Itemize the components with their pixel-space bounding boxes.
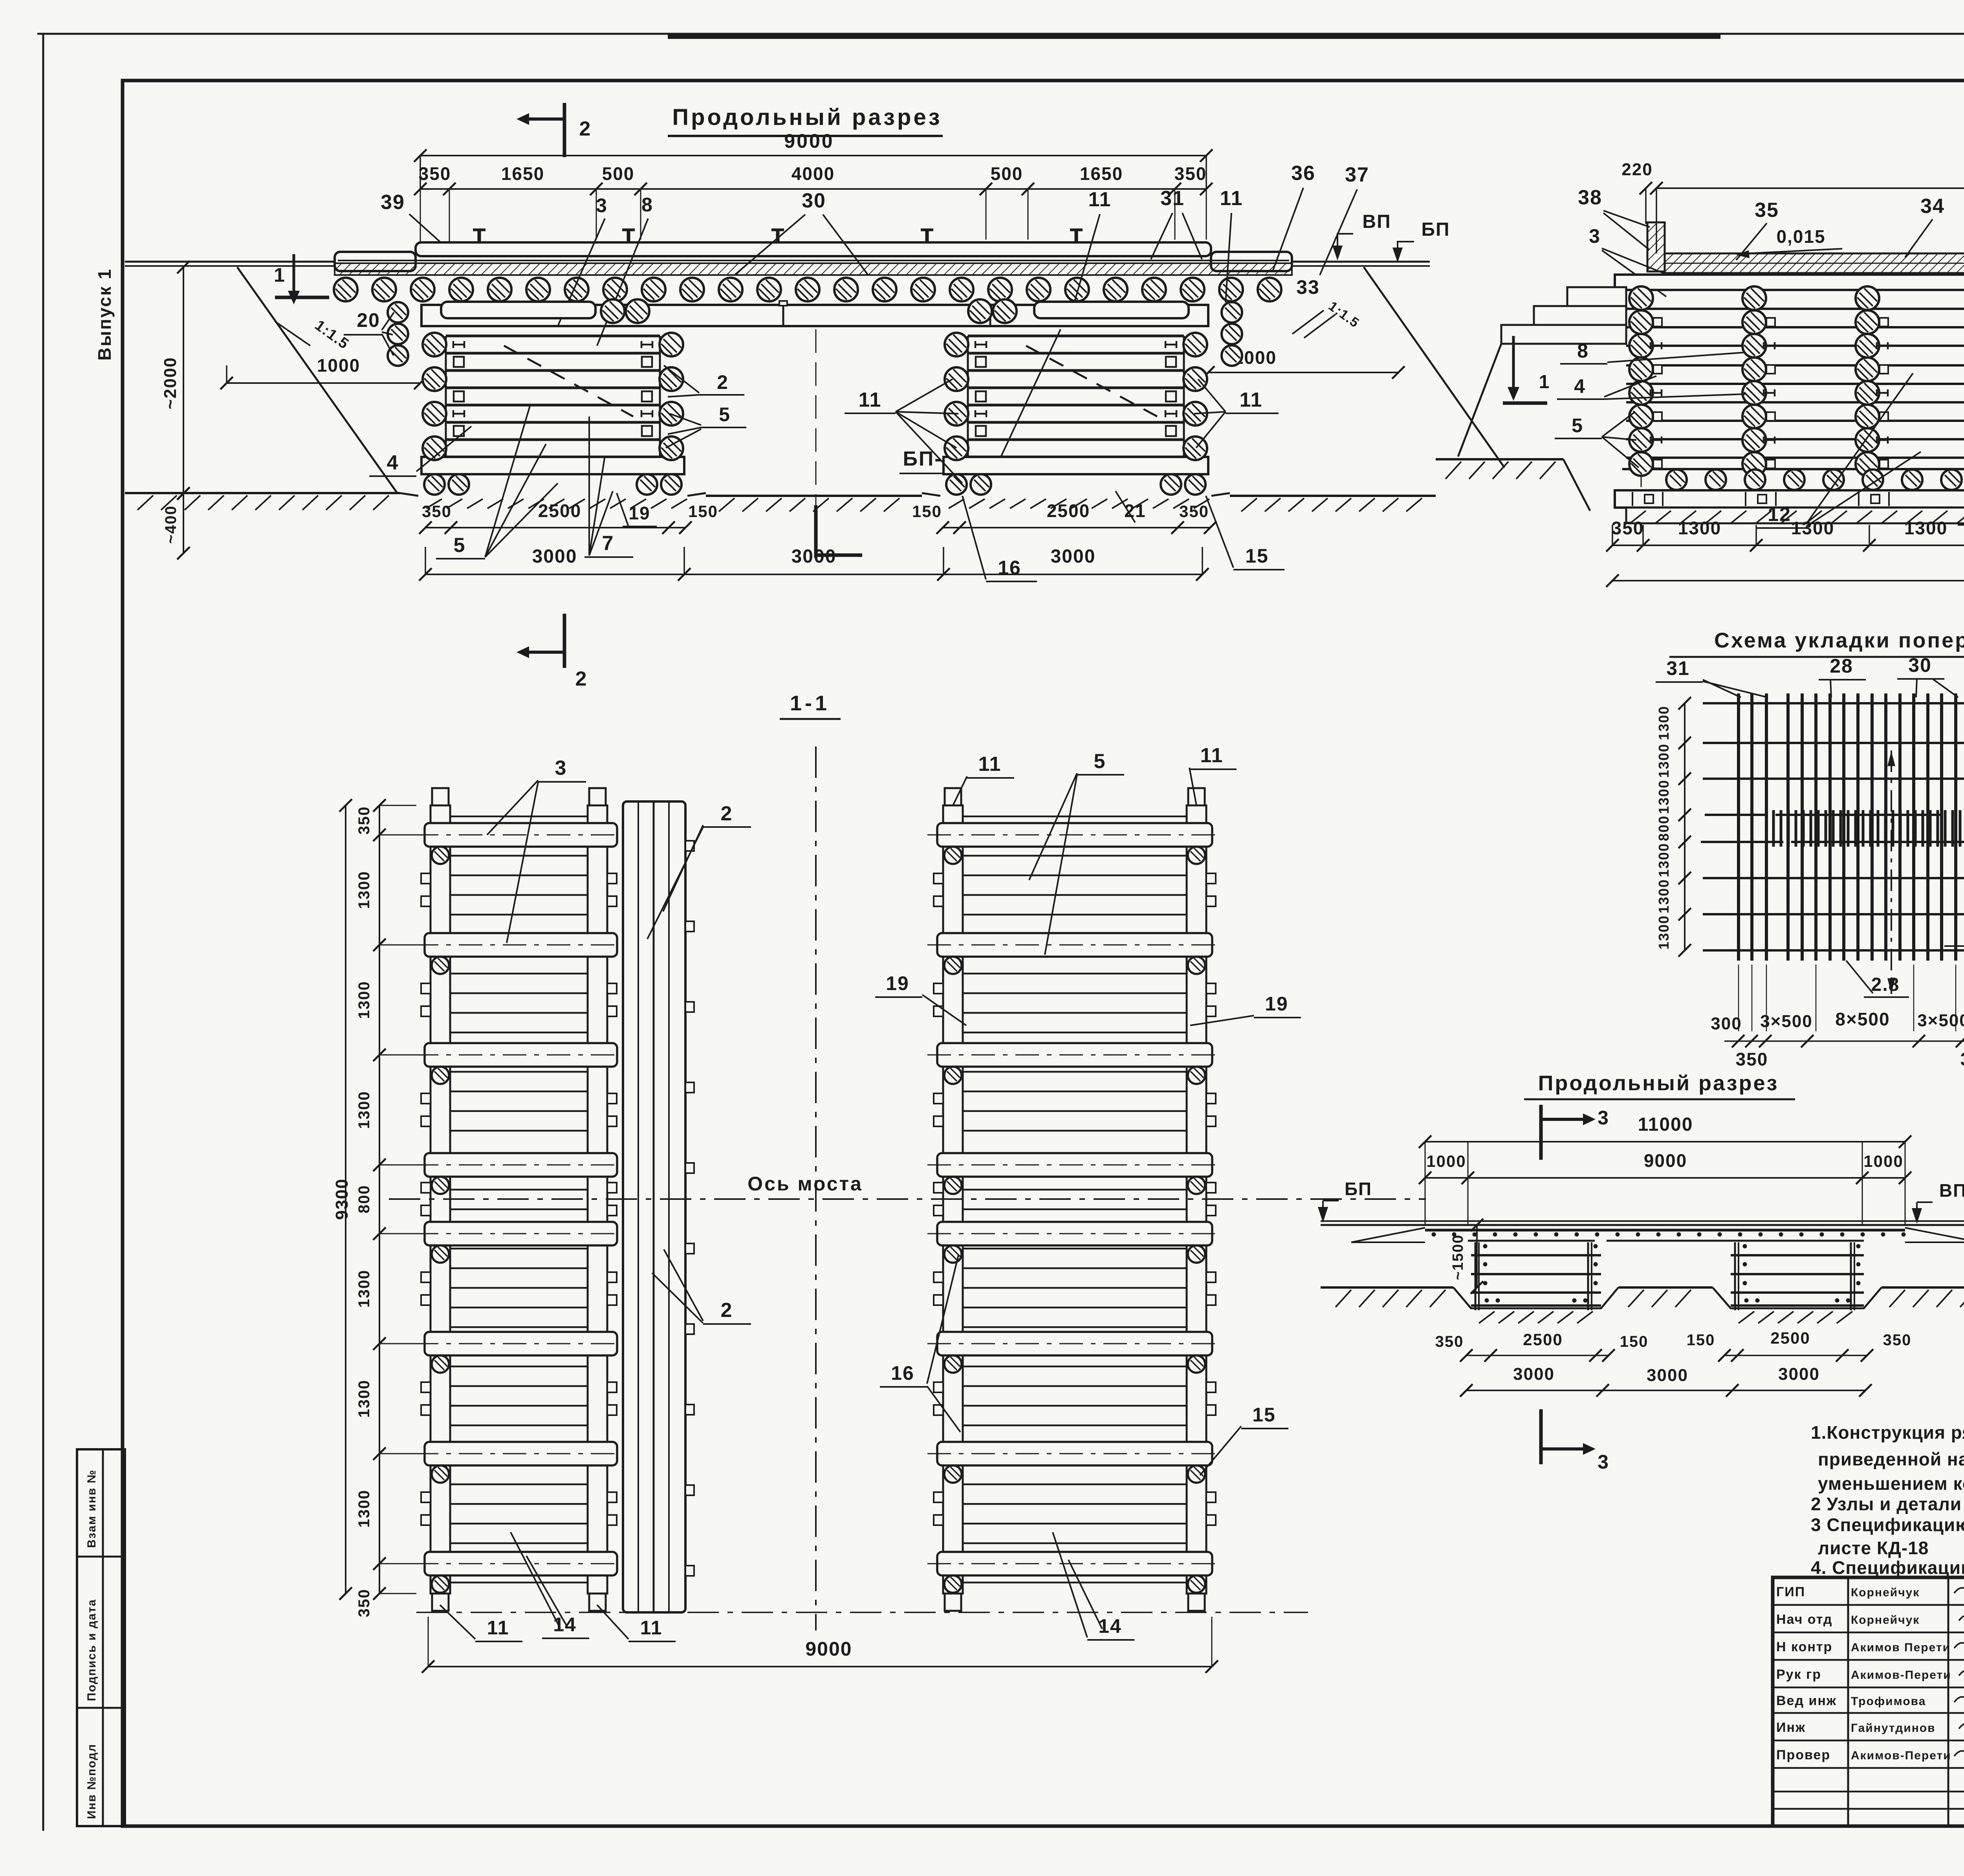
dim 11000 (1425, 1141, 1905, 1142)
svg-text:1000: 1000 (1863, 1152, 1903, 1170)
axis of bridge horizontal (389, 1198, 1426, 1200)
svg-text:2: 2 (721, 802, 733, 825)
svg-text:11: 11 (640, 1617, 663, 1639)
dim 8000 with 220 ends (1656, 187, 1964, 189)
dim ~400 vertical (183, 493, 184, 553)
svg-text:36: 36 (1291, 162, 1315, 185)
svg-text:2500: 2500 (1523, 1330, 1563, 1349)
svg-text:Н контр: Н контр (1776, 1639, 1832, 1654)
svg-text:2: 2 (721, 1299, 733, 1322)
svg-text:1000: 1000 (317, 355, 360, 376)
2-2 bottom transverse logs row (1666, 469, 1687, 490)
svg-text:350: 350 (1174, 163, 1207, 184)
svg-text:350: 350 (1883, 1331, 1912, 1349)
svg-text:350: 350 (355, 1589, 373, 1617)
svg-text:150: 150 (688, 502, 718, 521)
svg-text:~1500: ~1500 (1450, 1234, 1466, 1280)
svg-text:2 Узлы и детали ст. на ли: 2 Узлы и детали ст. на листе КД-15. (1811, 1494, 1964, 1514)
svg-text:12: 12 (1768, 503, 1791, 525)
embankment slope left 1:1.5 (237, 267, 398, 493)
svg-text:19: 19 (1265, 993, 1288, 1015)
svg-text:1: 1 (1539, 372, 1550, 392)
svg-text:500: 500 (602, 163, 635, 184)
svg-text:350: 350 (355, 806, 373, 835)
svg-text:2500: 2500 (1047, 501, 1090, 521)
svg-text:220: 220 (1621, 160, 1653, 179)
svg-text:31: 31 (1666, 657, 1690, 679)
left margin stamp table (77, 1449, 125, 1826)
small view dims 350 2500 150 / 150 2500 350 (1466, 1355, 1609, 1356)
svg-text:3000: 3000 (532, 546, 577, 567)
svg-text:3 Спецификацию элементов про: 3 Спецификацию элементов пролетных строе… (1811, 1515, 1964, 1535)
svg-text:350: 350 (1179, 502, 1209, 521)
svg-text:19: 19 (628, 503, 650, 523)
svg-text:16: 16 (891, 1362, 914, 1384)
schema axis БП-4 (1891, 750, 1892, 994)
svg-text:2: 2 (579, 117, 592, 140)
svg-text:2500: 2500 (1770, 1329, 1810, 1347)
svg-text:3000: 3000 (1778, 1364, 1820, 1384)
road line right approach (1292, 261, 1430, 263)
ground line right (1230, 468, 1504, 493)
2-2 body top beam (1615, 275, 1964, 290)
svg-text:28: 28 (1830, 655, 1853, 677)
svg-text:5: 5 (1572, 414, 1583, 436)
crib pier body 1073-1742 (446, 335, 660, 337)
svg-text:Продольный разрез: Продольный разрез (1538, 1071, 1779, 1095)
svg-text:15: 15 (1245, 545, 1269, 567)
bridge deck: curb log (416, 242, 1211, 256)
svg-text:34: 34 (1920, 195, 1945, 218)
pier 2 top bearing beam (1034, 302, 1189, 318)
svg-text:350: 350 (419, 163, 451, 184)
svg-text:Инв №подл: Инв №подл (85, 1744, 98, 1819)
svg-text:1300: 1300 (1656, 879, 1672, 913)
svg-text:3000: 3000 (1647, 1366, 1688, 1385)
svg-text:Акимов-Перети: Акимов-Перети (1851, 1669, 1951, 1682)
svg-text:ГИП: ГИП (1776, 1584, 1805, 1599)
svg-text:1300: 1300 (1656, 843, 1672, 877)
section 1-1 trace between piers (815, 329, 817, 505)
svg-text:11: 11 (1220, 187, 1243, 210)
2-2 body horizontal log courses (1626, 308, 1964, 310)
svg-text:1.Конструкция ряжевых опор: 1.Конструкция ряжевых опор высотой 1,5м … (1811, 1422, 1964, 1443)
1-1 stringer package (623, 801, 685, 1612)
schema stringers horizontal (1703, 702, 1964, 704)
svg-text:листе КД-18: листе КД-18 (1818, 1538, 1929, 1558)
svg-text:0,015: 0,015 (1776, 226, 1825, 247)
svg-text:11: 11 (487, 1617, 509, 1639)
svg-text:9000: 9000 (1644, 1150, 1687, 1171)
svg-text:8: 8 (641, 194, 653, 216)
outer thin border (37, 33, 1964, 35)
svg-text:1300: 1300 (1656, 915, 1672, 950)
deck beam small view (1425, 1229, 1905, 1232)
svg-text:1300: 1300 (1791, 518, 1834, 538)
schema ties vertical (1737, 693, 1740, 961)
svg-text:4: 4 (387, 451, 399, 474)
svg-text:11: 11 (1240, 389, 1263, 411)
svg-text:5: 5 (1094, 750, 1106, 773)
svg-text:Акимов-Перети: Акимов-Перети (1851, 1749, 1951, 1762)
dim 1000 right (1208, 372, 1398, 373)
dim row 350-1650-500-4000-500-1650-350 (420, 188, 1206, 190)
axis vertical between piers (815, 746, 817, 1630)
svg-text:ВП: ВП (1362, 211, 1391, 232)
svg-text:30: 30 (802, 189, 826, 212)
small view ground and pits (1321, 1286, 1453, 1289)
svg-text:9000: 9000 (805, 1638, 852, 1660)
svg-text:5: 5 (719, 403, 731, 425)
dim 1000 left (227, 382, 420, 384)
svg-text:3000: 3000 (1051, 546, 1096, 567)
svg-text:4000: 4000 (791, 163, 835, 184)
svg-text:ВП: ВП (1939, 1180, 1964, 1201)
svg-text:Корнейчук: Корнейчук (1851, 1586, 1920, 1599)
2-2 foundation beams (1615, 490, 1964, 508)
svg-text:5: 5 (454, 534, 466, 557)
small view dims 3000 x3 (1466, 1390, 1865, 1391)
svg-text:~400: ~400 (162, 505, 180, 544)
svg-text:3000: 3000 (791, 546, 837, 567)
svg-text:300: 300 (1711, 1014, 1742, 1033)
deck band hatched 2-2 (1665, 253, 1964, 273)
svg-text:11000: 11000 (1638, 1114, 1693, 1135)
svg-text:3: 3 (596, 194, 608, 216)
svg-text:приведенной на данном черте: приведенной на данном чертеже и отличает… (1818, 1449, 1964, 1469)
left guard post (1647, 222, 1665, 271)
svg-text:Вед инж: Вед инж (1776, 1693, 1837, 1708)
svg-text:1: 1 (274, 264, 286, 286)
svg-text:11: 11 (978, 753, 1002, 776)
svg-text:Выпуск 1: Выпуск 1 (94, 268, 115, 361)
right approach curb block (1211, 252, 1292, 271)
pit hatch under pier 2 (949, 499, 964, 508)
road line small view (1321, 1220, 1964, 1222)
svg-text:1300: 1300 (355, 871, 373, 909)
1-1 left dim chain (379, 805, 380, 1594)
svg-text:800: 800 (1656, 815, 1672, 841)
pier 2 outer bearing logs (1222, 302, 1242, 323)
svg-text:350: 350 (422, 502, 452, 521)
svg-text:8: 8 (1577, 340, 1589, 362)
svg-text:~2000: ~2000 (161, 357, 180, 409)
svg-text:3: 3 (1598, 1451, 1609, 1473)
dim row 3000 3000 3000 (425, 574, 1202, 575)
deck transverse log row (334, 278, 357, 301)
svg-text:20: 20 (357, 309, 380, 331)
svg-text:Инж: Инж (1776, 1720, 1806, 1735)
svg-text:Подпись и дата: Подпись и дата (85, 1599, 98, 1701)
embankment slope right (1364, 267, 1504, 468)
svg-text:1300: 1300 (1678, 518, 1721, 538)
svg-text:Трофимова: Трофимова (1851, 1695, 1926, 1708)
svg-text:1300: 1300 (355, 981, 373, 1019)
dim row under pier 2: 150 2500 350 (943, 527, 1210, 528)
section mark 1 left (293, 254, 295, 291)
svg-text:11: 11 (1200, 744, 1224, 767)
svg-text:1300: 1300 (1904, 518, 1948, 538)
svg-text:Взам инв №: Взам инв № (85, 1469, 98, 1548)
svg-text:39: 39 (381, 191, 405, 214)
svg-text:1300: 1300 (355, 1490, 373, 1528)
svg-text:1300: 1300 (1656, 706, 1672, 740)
dim 1000 9000 1000 (1425, 1177, 1905, 1179)
svg-text:800: 800 (355, 1185, 373, 1214)
dim row under pier 1: 350 2500 150 (425, 527, 685, 528)
svg-text:9300: 9300 (332, 1178, 352, 1220)
svg-text:7: 7 (602, 532, 614, 555)
title block signature table (1773, 1604, 1964, 1606)
svg-text:Рук гр: Рук гр (1776, 1667, 1821, 1682)
1-1 bottom dim 9000 (428, 1666, 1212, 1667)
section mark 2 top (563, 103, 566, 157)
cap beam БП-4 (421, 305, 1208, 326)
svg-text:1300: 1300 (355, 1380, 373, 1418)
svg-text:350: 350 (1960, 1049, 1964, 1069)
pier 1 top bearing beam (441, 302, 595, 318)
ground line left (125, 492, 400, 494)
svg-text:Схема укладки поперечин: Схема укладки поперечин (1714, 629, 1964, 652)
2-2 log columns (1641, 293, 1642, 487)
svg-text:БП: БП (1345, 1179, 1372, 1199)
2-2 pit bottom hatch (1630, 511, 1646, 523)
small view pier 2 (1731, 1254, 1864, 1256)
2-2 dim 9300 (1612, 580, 1964, 581)
svg-text:38: 38 (1578, 186, 1602, 209)
svg-text:1650: 1650 (1080, 163, 1123, 184)
svg-text:15: 15 (1252, 1404, 1276, 1426)
section mark 1 for 2-2 side (1512, 336, 1515, 387)
dim ~1500 for small view (1476, 1225, 1478, 1287)
svg-text:3: 3 (1589, 225, 1601, 247)
svg-text:9000: 9000 (784, 130, 834, 152)
svg-text:30: 30 (1908, 654, 1932, 676)
svg-text:1000: 1000 (1426, 1152, 1466, 1170)
small view pier 1 (1471, 1254, 1601, 1256)
section mark 3 top (1539, 1105, 1543, 1160)
svg-text:3: 3 (1598, 1107, 1609, 1129)
schema dim chain left (1684, 703, 1686, 950)
deck plank band hatched (335, 263, 1292, 275)
svg-text:1300: 1300 (1656, 779, 1672, 814)
title block outer (1773, 1577, 1964, 1826)
svg-text:4. Спецификацию элементов оп: 4. Спецификацию элементов опор ст. на ли… (1811, 1557, 1964, 1578)
svg-text:3000: 3000 (1513, 1364, 1555, 1384)
1-1 bottom course axis line (416, 1612, 1308, 1613)
svg-text:350: 350 (1612, 518, 1644, 538)
2-2 left embankment steps (1567, 287, 1626, 306)
svg-text:3×500: 3×500 (1760, 1012, 1813, 1031)
svg-text:35: 35 (1755, 199, 1779, 222)
svg-text:4: 4 (1574, 375, 1586, 397)
svg-text:37: 37 (1345, 163, 1369, 186)
road surface lines (338, 260, 1289, 261)
svg-text:500: 500 (991, 163, 1023, 184)
svg-text:150: 150 (912, 502, 942, 521)
svg-text:14: 14 (553, 1614, 577, 1636)
section mark 2 bottom (563, 614, 566, 668)
svg-text:Ось моста: Ось моста (747, 1173, 863, 1195)
svg-text:3×500: 3×500 (1917, 1011, 1964, 1030)
railing posts (478, 230, 481, 242)
svg-text:3: 3 (555, 757, 567, 779)
svg-text:Акимов Перети: Акимов Перети (1851, 1641, 1951, 1654)
svg-text:33: 33 (1296, 276, 1320, 298)
svg-text:Продольный разрез: Продольный разрез (672, 105, 942, 130)
crib pier body 2402-3076 (968, 335, 1184, 337)
2-2 dim row 350 1300x3 800 1300x3 350 (1612, 545, 1964, 546)
svg-text:Нач отд: Нач отд (1776, 1612, 1833, 1627)
dim ~2000 vertical (183, 267, 184, 493)
svg-text:11: 11 (859, 389, 882, 411)
road line left approach (125, 261, 335, 263)
svg-text:150: 150 (1620, 1333, 1649, 1350)
svg-text:2.8: 2.8 (1871, 974, 1900, 995)
svg-text:Провер: Провер (1776, 1748, 1830, 1762)
svg-text:1300: 1300 (355, 1091, 373, 1129)
svg-text:1300: 1300 (355, 1270, 373, 1308)
svg-text:16: 16 (998, 557, 1021, 579)
section mark 1 lower (between piers) (814, 505, 818, 558)
svg-text:31: 31 (1160, 187, 1185, 210)
svg-text:1650: 1650 (501, 163, 544, 184)
svg-text:14: 14 (1098, 1615, 1122, 1637)
approach wedges (1351, 1228, 1425, 1242)
svg-text:350: 350 (1736, 1049, 1768, 1069)
ground line middle (706, 495, 922, 497)
svg-text:19: 19 (886, 972, 909, 994)
svg-text:2: 2 (575, 668, 588, 690)
pier 1 outer bearing logs (столик) (388, 302, 408, 323)
dim 9000 overall (420, 155, 1206, 156)
svg-text:2500: 2500 (538, 501, 581, 521)
svg-text:1-1: 1-1 (790, 691, 830, 715)
1-1 left pier plan (450, 816, 588, 818)
2-2 left slope and ground (1458, 344, 1501, 457)
pit hatch under pier 1 (426, 499, 442, 508)
schema mid joint short ties (1772, 810, 1775, 847)
svg-text:8×500: 8×500 (1835, 1009, 1890, 1029)
1-1 right pier plan (963, 816, 1187, 818)
svg-text:11: 11 (1088, 188, 1112, 211)
svg-text:БП: БП (1422, 219, 1450, 240)
section mark 3 bottom (1539, 1409, 1543, 1464)
svg-text:уменьшением количества венцо: уменьшением количества венцов на 2. (1818, 1473, 1964, 1494)
svg-text:350: 350 (1435, 1333, 1464, 1350)
svg-text:Гайнутдинов: Гайнутдинов (1851, 1722, 1936, 1735)
svg-text:1300: 1300 (1656, 743, 1672, 778)
svg-text:150: 150 (1687, 1331, 1715, 1349)
left approach curb block (335, 252, 416, 271)
svg-text:2: 2 (717, 371, 729, 393)
schema bottom dims (1724, 1040, 1964, 1042)
svg-text:Корнейчук: Корнейчук (1851, 1614, 1920, 1627)
